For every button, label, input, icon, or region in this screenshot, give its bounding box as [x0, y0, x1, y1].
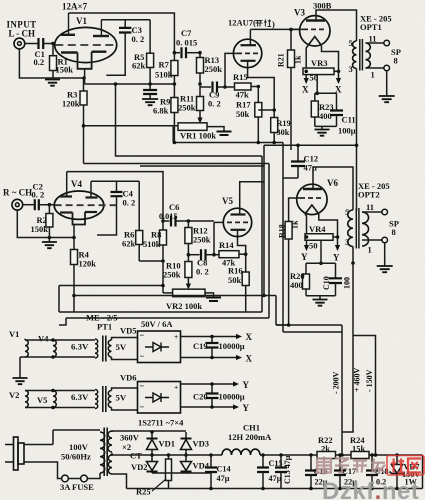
svg-text:400: 400 — [319, 111, 332, 121]
lower rail G y312 — [59, 286, 262, 313]
OPT1 core — [359, 39, 361, 71]
V1 cathode stub — [84, 69, 86, 84]
svg-text:C17: C17 — [342, 467, 356, 476]
V4 cathode U — [73, 212, 86, 225]
svg-text:62k: 62k — [132, 61, 146, 71]
arrow R10 wiper into VR2 — [186, 284, 191, 290]
OPT2 core — [355, 208, 357, 249]
Y arrow right of VR4 — [336, 235, 340, 239]
svg-text:3: 3 — [349, 64, 353, 74]
node R13 bottom C9 — [198, 82, 202, 86]
svg-text:~: ~ — [140, 332, 144, 340]
svg-text:0. 2: 0. 2 — [132, 34, 145, 44]
ground under R23 C11 — [321, 126, 323, 129]
row2 5V leads to bridge — [112, 388, 138, 410]
svg-text:8: 8 — [394, 56, 398, 66]
node R3 to VR1 left — [82, 124, 86, 128]
row1 ground stem — [19, 357, 21, 378]
svg-text:V3: V3 — [294, 8, 305, 18]
bypass capacitor at R5 bottom — [149, 84, 151, 90]
svg-text:6.3V: 6.3V — [71, 342, 89, 352]
rail right end down — [422, 455, 424, 489]
bridge rectifier VD5 box — [138, 331, 181, 363]
svg-text:120k: 120k — [62, 99, 80, 109]
svg-text:5: 5 — [345, 207, 349, 217]
svg-text:V1: V1 — [9, 329, 19, 339]
input jack J1 L-CH — [14, 38, 25, 49]
capacitor C1 — [39, 38, 44, 49]
PT1 row2 primary winding — [95, 390, 98, 409]
node -200V on rail — [340, 453, 344, 457]
capacitor C7 — [174, 52, 180, 54]
wire C2 to V4 grid — [39, 204, 55, 206]
svg-text:): ) — [272, 19, 275, 29]
V4 cathode bars — [60, 211, 73, 213]
V5 plate — [231, 213, 246, 215]
heater coil V5 — [53, 391, 56, 408]
tube V4 envelope — [54, 191, 104, 219]
V5 cathode lead to R16 top — [238, 230, 246, 254]
node grid V1 — [51, 42, 55, 46]
svg-text:V2: V2 — [9, 390, 19, 400]
svg-text:360V: 360V — [120, 433, 140, 443]
svg-text:VD6: VD6 — [120, 373, 137, 383]
PT2 secondary winding 360Vx2 — [108, 431, 112, 452]
V6 filament left leg to VR4 — [305, 214, 307, 237]
V3 grid dashes — [303, 28, 326, 30]
plug top lead — [24, 430, 100, 445]
svg-text:C10: C10 — [322, 276, 331, 290]
svg-text:400: 400 — [290, 280, 303, 290]
svg-text:1: 1 — [368, 245, 372, 255]
svg-text:C7: C7 — [181, 28, 192, 38]
transformer OPT1 secondary coil — [366, 43, 371, 68]
svg-text:50/60Hz: 50/60Hz — [61, 452, 91, 462]
OPT2 secondary bottom lead + terminal — [362, 239, 382, 241]
svg-text:10000μ: 10000μ — [219, 341, 245, 351]
svg-text:47k: 47k — [236, 90, 250, 100]
svg-text:100V: 100V — [69, 442, 89, 452]
tube 12AU7 V2 envelope — [233, 39, 261, 67]
svg-text:0. 2: 0. 2 — [196, 267, 209, 277]
svg-text:R ~ CH: R ~ CH — [3, 188, 32, 198]
fuse to primary — [87, 473, 100, 479]
svg-text:250k: 250k — [163, 270, 181, 280]
V1 grid dashed line — [55, 44, 116, 46]
row1 top wire — [25, 339, 95, 340]
ground rail y488.5 — [127, 488, 423, 490]
svg-text:250k: 250k — [178, 103, 196, 113]
resistor R5 — [149, 20, 151, 54]
heater coil V2 — [25, 391, 28, 408]
svg-text:- 200V: - 200V — [332, 371, 341, 394]
capacitor C13 — [280, 455, 282, 468]
svg-text:~: ~ — [140, 404, 144, 412]
svg-text:V4: V4 — [71, 179, 82, 189]
R23 C11 box top — [315, 92, 337, 94]
VR1 right lead and ground — [207, 127, 224, 131]
V4 grid dashes — [55, 204, 117, 206]
-150V tap — [353, 336, 376, 457]
PT1 row1 5V winding — [108, 340, 111, 357]
wire C6 to V5 grid — [188, 220, 214, 222]
rail B y156 — [116, 84, 263, 156]
+460V vertical — [342, 263, 353, 432]
svg-text:250k: 250k — [193, 235, 211, 245]
row1 bottom wire — [20, 356, 95, 358]
V5 cathode — [231, 229, 246, 231]
ground under bypass cap — [142, 99, 158, 105]
capacitor C15 — [262, 455, 264, 468]
svg-text:62k: 62k — [122, 239, 136, 249]
svg-text:VD1: VD1 — [159, 439, 176, 449]
mains plug — [5, 445, 14, 463]
capacitor C14 — [210, 455, 212, 468]
node -150V on rail — [374, 453, 378, 457]
svg-text:1: 1 — [371, 70, 375, 80]
resistor R24 in rail — [351, 452, 369, 459]
svg-text:R21: R21 — [277, 53, 286, 67]
V5 grid feed — [214, 221, 223, 223]
svg-text:+: + — [174, 383, 178, 392]
capacitor C3 — [124, 20, 126, 28]
X arrow right of VR3 — [337, 70, 341, 74]
V1 cathode U — [78, 52, 92, 69]
wire OPT1 pin3 down B+ vertical — [356, 69, 358, 212]
svg-text:R7: R7 — [159, 60, 170, 70]
svg-text:12A×7: 12A×7 — [62, 2, 88, 12]
ground under R20 C10 — [319, 296, 321, 300]
svg-text:C14: C14 — [217, 465, 231, 474]
PT1 row2 core — [102, 386, 104, 412]
wire jack2 to C2 — [23, 204, 34, 206]
potentiometer VR2 — [173, 289, 205, 297]
node C7 left — [173, 51, 177, 55]
bridge rectifier VD6 box — [138, 382, 181, 414]
V1 right plate — [93, 35, 109, 37]
top rail from V1 left plate y13 — [69, 13, 175, 53]
resistor R11 — [199, 87, 201, 97]
svg-text:Y: Y — [243, 380, 250, 390]
bridge1 out top to X — [181, 336, 240, 338]
svg-text:0. 2: 0. 2 — [208, 99, 221, 109]
zener diode VD7 — [396, 455, 398, 465]
node R18 bottom on rail — [287, 323, 291, 327]
node R12 bottom C8 — [187, 253, 191, 257]
svg-text:V5: V5 — [37, 395, 47, 405]
resistor R21 — [288, 50, 295, 68]
mid vertical x262 — [261, 156, 263, 312]
resistor R15 — [225, 86, 235, 88]
svg-text:OPT2: OPT2 — [358, 190, 380, 200]
ground under R1 — [45, 80, 60, 86]
VR2 left lead — [163, 292, 173, 294]
bias out rail y473 — [152, 472, 211, 474]
rail A y142.5 ground bus ch1 — [173, 127, 283, 143]
svg-text:3: 3 — [345, 237, 349, 247]
OPT2 pin3 lead down — [352, 247, 354, 264]
PT2 core — [103, 428, 105, 477]
svg-text:12H 200mA: 12H 200mA — [228, 432, 272, 442]
svg-text:X: X — [246, 332, 253, 342]
R20 C10 box top — [306, 262, 336, 264]
wire C8 to grid node — [213, 222, 215, 254]
V6 grid dashes — [300, 197, 323, 199]
svg-text:VD3: VD3 — [193, 439, 210, 449]
V4 cathode stub to R4 — [73, 225, 75, 238]
svg-text:R17: R17 — [236, 100, 251, 110]
R20 C10 box bottom — [306, 295, 336, 297]
resistor R2 — [48, 205, 50, 214]
node C7 R13 — [198, 51, 202, 55]
12AU7 cathode — [241, 60, 256, 62]
V3 plate lead to OPT1 pin5 — [316, 10, 357, 41]
resistor R8 — [162, 221, 164, 230]
VD6 diode symbol — [145, 393, 169, 402]
svg-text:VR3: VR3 — [311, 58, 328, 68]
svg-text:C6: C6 — [169, 202, 179, 212]
capacitor C9 — [213, 82, 218, 93]
svg-text:Y: Y — [333, 253, 340, 263]
resistor R9 — [173, 84, 175, 98]
plug bottom lead to fuse — [24, 462, 62, 479]
node C9 R15 junction — [223, 85, 227, 89]
svg-text:1k: 1k — [294, 55, 303, 64]
potentiometer VR3 — [303, 68, 334, 75]
V6 grid lead to R18 — [289, 198, 300, 222]
heater coil V1 — [25, 340, 28, 357]
svg-text:R14: R14 — [219, 240, 234, 250]
V6 plate lead to OPT2 pin5 — [313, 167, 353, 210]
VR3 wiper to R23 C11 — [316, 75, 318, 94]
V3 filament right leg to VR3 — [322, 46, 339, 70]
node R12 top — [187, 219, 191, 223]
V1 cathode left bar — [61, 51, 78, 53]
capacitor C20 — [211, 384, 213, 394]
C12 bottom hook to bundle — [283, 177, 298, 179]
V4 left plate — [60, 195, 72, 197]
potentiometer VR1 — [178, 123, 207, 131]
transformer OPT1 primary coil — [353, 41, 357, 69]
node R21 top on grid line — [289, 28, 293, 32]
resistor R12 — [187, 221, 189, 228]
V6 plate — [303, 188, 322, 190]
svg-text:V4: V4 — [38, 334, 49, 344]
secondary bottom tap to ground rail — [112, 474, 127, 489]
svg-text:50: 50 — [309, 241, 318, 251]
svg-text:150k: 150k — [31, 224, 49, 234]
svg-text:VR1 100k: VR1 100k — [180, 131, 216, 141]
diode VD4 — [185, 455, 187, 462]
svg-text:0.015: 0.015 — [159, 212, 177, 221]
diode VD2 — [151, 455, 153, 462]
potentiometer VR4 — [305, 234, 333, 241]
V1 left plate — [61, 34, 75, 36]
row2 bottom wire — [25, 407, 95, 409]
V3 filament left leg to VR3 — [306, 46, 308, 70]
V6 filament right leg to VR4 — [319, 214, 338, 237]
vertical x264 down from rail F — [263, 182, 265, 296]
X arrow left of VR3 — [304, 70, 308, 74]
svg-text:+: + — [174, 332, 178, 341]
12AU7 grid dashes — [237, 52, 258, 54]
plate line y19.7 to R5 — [101, 19, 150, 21]
svg-text:VR2 100k: VR2 100k — [166, 301, 202, 311]
svg-text:VD2: VD2 — [131, 462, 148, 472]
V5 grid dashes — [227, 221, 248, 223]
OPT1 secondary top lead + terminal — [366, 42, 385, 44]
capacitor C11 — [336, 93, 338, 110]
node cathode bus R5 — [148, 82, 152, 86]
svg-text:47μ: 47μ — [217, 474, 230, 483]
svg-text:510k: 510k — [143, 239, 161, 249]
rail C y163.5 from R3 — [84, 163, 270, 165]
watermark dianzi kaifa glyphs gray — [317, 457, 331, 475]
watermark shequ glyphs red — [391, 459, 404, 473]
capacitor C12 — [297, 145, 299, 161]
resistor R10 — [187, 255, 189, 262]
capacitor C6 — [163, 220, 170, 222]
lower rail I y325 to -200V — [276, 324, 342, 326]
node B+ rail OPT — [355, 144, 359, 148]
VR1 left lead to R3 — [84, 125, 179, 127]
capacitor C4 — [116, 181, 118, 192]
VR4 wiper to R20 C10 box — [320, 240, 322, 263]
arrow R11 wiper into VR1 — [197, 118, 202, 124]
svg-text:L - CH: L - CH — [9, 29, 36, 39]
OPT2 secondary top lead + terminal — [362, 211, 382, 213]
node R4 top — [72, 236, 76, 240]
svg-text:8: 8 — [392, 227, 396, 237]
svg-text:0. 2: 0. 2 — [32, 190, 45, 200]
diode VD3 — [185, 432, 187, 439]
input jack J2 R-CH — [12, 199, 23, 210]
12AU7 cathode to R19 top — [248, 68, 275, 111]
svg-text:100: 100 — [343, 277, 352, 289]
mid vertical x269 — [268, 164, 270, 319]
svg-text:11: 11 — [366, 202, 374, 212]
tube V6 envelope — [297, 184, 327, 214]
node filter rail junctions — [279, 453, 283, 457]
lower rail H y318 — [59, 318, 269, 325]
diode VD1 — [151, 432, 153, 439]
svg-text:2k: 2k — [321, 444, 330, 454]
svg-text:6.8k: 6.8k — [153, 106, 169, 116]
svg-text:0. 015: 0. 015 — [176, 38, 197, 48]
svg-text:Dzkf.net: Dzkf.net — [322, 478, 419, 500]
svg-text:6.3V: 6.3V — [71, 392, 89, 402]
svg-text:11: 11 — [369, 34, 377, 44]
svg-text:- 150V: - 150V — [365, 369, 374, 392]
capacitor C16 — [310, 455, 312, 471]
wire grid feed up from C9 node — [225, 53, 234, 87]
OPT1 secondary bottom lead + terminal — [366, 67, 385, 69]
node R14 R16 — [244, 252, 248, 256]
svg-text:PT1: PT1 — [97, 322, 112, 332]
PT1 row1 core — [102, 336, 104, 362]
PT1 row2 5V winding — [108, 391, 111, 408]
svg-text:V1: V1 — [76, 16, 87, 26]
resistor R7 — [173, 53, 175, 61]
12AU7 grid lead — [234, 52, 237, 54]
rail from R4 y295.5 — [74, 295, 276, 297]
svg-text:150k: 150k — [56, 65, 74, 75]
svg-text:50k: 50k — [228, 275, 242, 285]
heater coil V4 — [53, 340, 56, 357]
fuse F1 3A — [62, 475, 69, 482]
resistor R3 — [82, 76, 86, 80]
resistor R22 in rail — [317, 452, 336, 459]
ground under R2 — [48, 236, 52, 240]
resistor R13 — [199, 53, 201, 58]
svg-text:50k: 50k — [236, 109, 250, 119]
svg-text:~: ~ — [140, 353, 144, 361]
12AU7 plate line to V3 grid — [250, 28, 299, 30]
svg-text:120k: 120k — [79, 259, 97, 269]
svg-text:5V: 5V — [116, 393, 127, 403]
bridge2 out top to Y — [181, 383, 237, 385]
svg-text:X: X — [246, 354, 253, 364]
V4 top rail y171.6 — [67, 172, 163, 221]
V1 cathode right bar — [92, 51, 107, 53]
cathode bus y84 — [85, 83, 175, 85]
PT2 primary winding — [100, 432, 105, 473]
bridge2 out bottom to Y — [181, 406, 237, 408]
capacitor C10 — [335, 263, 337, 278]
V5 plate lead up to B+ rail — [240, 145, 264, 214]
svg-text:R15: R15 — [233, 72, 248, 82]
PT1 row1 primary winding — [95, 339, 98, 358]
node C8 R14 — [212, 253, 216, 257]
watermark red box around shequ — [387, 456, 424, 476]
svg-text:Y: Y — [243, 403, 250, 413]
rail F y166 — [140, 165, 264, 167]
V3 grid lead to R21 — [291, 29, 303, 50]
resistor R18 — [285, 222, 292, 240]
wire R13 to C9 — [199, 84, 201, 87]
mid vertical x283 — [282, 143, 284, 333]
V4 right plate — [86, 196, 98, 198]
svg-text:3A FUSE: 3A FUSE — [60, 482, 94, 492]
svg-text:R19: R19 — [277, 119, 291, 128]
C4 bottom hook — [97, 205, 117, 235]
node dots rectifier — [150, 430, 154, 434]
-200V vertical — [283, 325, 342, 450]
svg-text:50V / 6A: 50V / 6A — [141, 319, 173, 329]
svg-text:Y: Y — [301, 252, 308, 262]
resistor R17 — [257, 87, 259, 103]
svg-text:R16: R16 — [228, 266, 243, 276]
svg-text:~: ~ — [140, 383, 144, 391]
bridge1 out bottom to X — [181, 357, 240, 359]
node R7 R9 cathode bus — [173, 82, 177, 86]
main filter rail y455 — [110, 454, 423, 456]
node rail A junctions — [173, 141, 177, 145]
resistor R23 — [314, 93, 316, 101]
svg-text:1S2711 ~7×4: 1S2711 ~7×4 — [138, 418, 184, 428]
node R4 lower junction — [72, 294, 76, 298]
B+ rail y145.3 — [264, 144, 357, 146]
svg-text:47μ: 47μ — [269, 474, 282, 483]
svg-text:C11: C11 — [342, 115, 356, 125]
wire C3 to grid hook — [106, 45, 125, 75]
resistor R19 — [258, 110, 274, 118]
svg-text:5V: 5V — [116, 342, 127, 352]
svg-text:0.2: 0.2 — [34, 57, 45, 67]
svg-text:5: 5 — [349, 38, 353, 48]
svg-text:R8: R8 — [151, 230, 161, 240]
svg-text:15k: 15k — [352, 444, 366, 454]
